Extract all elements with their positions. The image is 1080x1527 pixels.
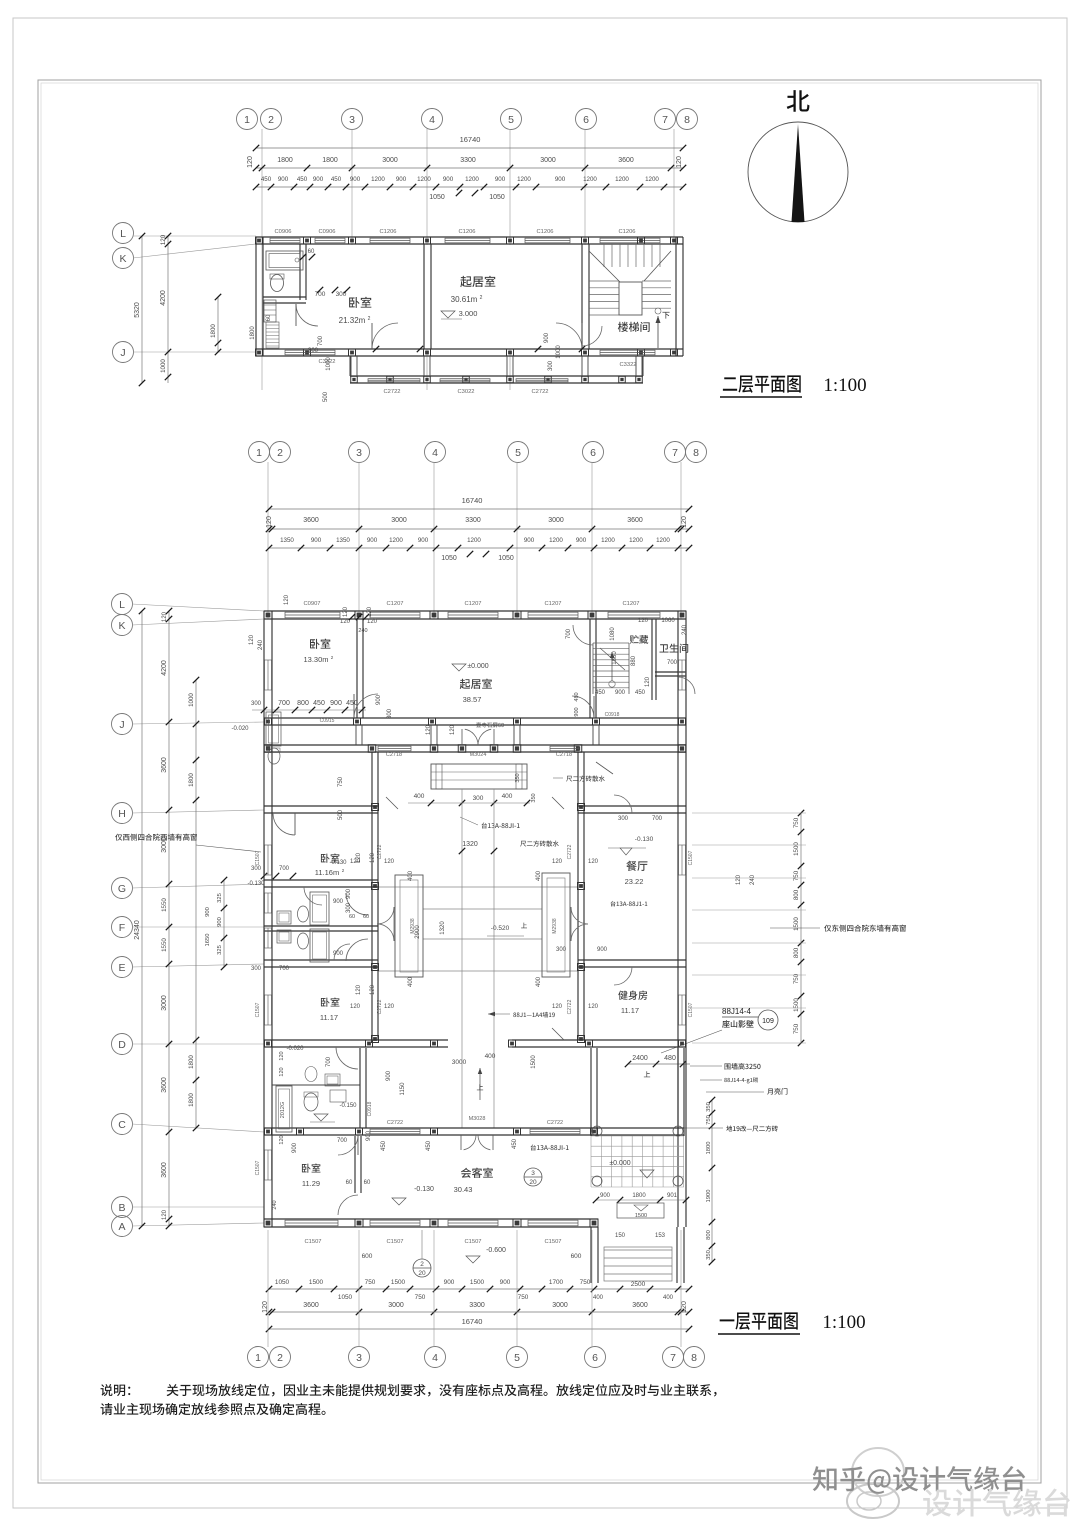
svg-text:1800: 1800 (632, 1193, 646, 1199)
lower plan courtyard north wall (264, 744, 686, 746)
C wall (264, 1127, 598, 1129)
svg-text:3600: 3600 (161, 1077, 168, 1093)
svg-text:8: 8 (691, 1352, 697, 1364)
svg-text:3000: 3000 (382, 157, 398, 164)
svg-text:3000: 3000 (548, 517, 564, 524)
svg-text:880: 880 (631, 655, 637, 666)
svg-text:480: 480 (664, 1055, 676, 1062)
svg-text:400: 400 (593, 1295, 604, 1301)
courtyard corner braces (552, 797, 564, 809)
svg-text:900: 900 (495, 176, 506, 183)
svg-text:300: 300 (556, 947, 567, 953)
svg-text:300: 300 (618, 816, 629, 822)
svg-text:1800: 1800 (250, 326, 256, 340)
stair lower plan (593, 642, 629, 644)
svg-text:2900: 2900 (415, 925, 421, 939)
svg-text:450: 450 (297, 176, 308, 183)
svg-text:3600: 3600 (161, 1162, 168, 1178)
svg-text:L: L (119, 599, 125, 611)
interior wall axis3 upper wing (356, 619, 358, 718)
svg-text:1050: 1050 (429, 194, 445, 201)
entrance steps porch (431, 764, 527, 789)
svg-text:16740: 16740 (460, 135, 481, 144)
upper plan dim row level2 (256, 167, 683, 169)
svg-text:1:100: 1:100 (823, 375, 866, 396)
svg-text:3600: 3600 (618, 157, 634, 164)
svg-text:120: 120 (279, 1067, 285, 1076)
svg-text:3600: 3600 (632, 1302, 648, 1309)
svg-text:1200: 1200 (615, 176, 629, 183)
svg-text:3600: 3600 (303, 1302, 319, 1309)
svg-text:1050: 1050 (338, 1294, 353, 1301)
svg-text:450: 450 (595, 690, 606, 696)
svg-text:900: 900 (346, 888, 352, 899)
svg-text:30.61m: 30.61m (451, 295, 478, 304)
west bay (M2938) (395, 875, 423, 977)
svg-text:1900: 1900 (706, 1190, 712, 1203)
svg-text:700: 700 (279, 966, 290, 972)
svg-text:M3024: M3024 (470, 752, 487, 758)
upper plan stair (619, 282, 642, 315)
svg-text:3000: 3000 (391, 517, 407, 524)
svg-text:1500: 1500 (793, 842, 800, 856)
svg-text:1200: 1200 (656, 537, 670, 544)
svg-text:700: 700 (279, 866, 290, 872)
watermark light text (923, 1488, 1070, 1516)
svg-text:750: 750 (365, 1279, 376, 1286)
svg-text:2: 2 (277, 1352, 283, 1364)
svg-text:60: 60 (349, 914, 355, 920)
svg-text:8: 8 (684, 114, 690, 126)
svg-text:3000: 3000 (540, 157, 556, 164)
svg-text:700: 700 (652, 816, 663, 822)
svg-text:C1507: C1507 (255, 850, 261, 865)
svg-text:1500: 1500 (635, 1213, 647, 1219)
svg-text:900: 900 (350, 176, 361, 183)
svg-text:K: K (119, 253, 126, 265)
svg-text:G: G (118, 883, 126, 895)
D-C bath extra (325, 1074, 340, 1086)
upper plan stair label (618, 322, 650, 332)
svg-text:4200: 4200 (161, 660, 168, 676)
courtyard colonnade west (371, 752, 373, 1040)
svg-text:3600: 3600 (303, 517, 319, 524)
svg-text:900: 900 (366, 1130, 372, 1141)
reception room labels (461, 1168, 493, 1178)
svg-text:120: 120 (343, 606, 349, 617)
svg-text:11.16m: 11.16m (315, 868, 339, 877)
svg-text:M3028: M3028 (469, 1116, 486, 1122)
svg-text:1200: 1200 (583, 176, 597, 183)
lower plan left dims (141, 611, 143, 1226)
svg-text:24340: 24340 (134, 920, 141, 940)
storage label (630, 635, 648, 644)
svg-text:±0.000: ±0.000 (609, 1160, 630, 1167)
east bay (M2938) (542, 873, 570, 977)
svg-text:C1507: C1507 (386, 1239, 403, 1245)
lower plan top dim row level2 (269, 528, 689, 530)
svg-text:1: 1 (244, 114, 250, 126)
svg-text:120: 120 (249, 634, 255, 645)
svg-text:900: 900 (600, 1193, 611, 1199)
svg-text:3300: 3300 (469, 1302, 485, 1309)
svg-text:600: 600 (362, 1253, 373, 1260)
svg-text:-0.130: -0.130 (635, 836, 654, 843)
svg-text:4: 4 (432, 1352, 438, 1364)
upper plan bottom windows (285, 350, 335, 355)
svg-text:1050: 1050 (441, 555, 457, 562)
svg-text:1200: 1200 (601, 537, 615, 544)
svg-text:1320: 1320 (440, 921, 446, 935)
svg-text:5: 5 (508, 114, 514, 126)
svg-text:60: 60 (308, 249, 315, 255)
svg-text:120: 120 (638, 618, 649, 624)
upper plan top wall windows (270, 238, 300, 243)
svg-text:900: 900 (367, 537, 378, 544)
svg-text:3300: 3300 (465, 517, 481, 524)
svg-text:350: 350 (531, 793, 537, 802)
title: second floor plan (723, 375, 801, 392)
J to courtyard-north wall column connectors (355, 725, 357, 745)
svg-text:120: 120 (367, 619, 378, 625)
svg-text:16740: 16740 (462, 496, 483, 505)
svg-text:C0906: C0906 (318, 229, 335, 235)
svg-text:J: J (119, 719, 124, 731)
svg-text:60: 60 (364, 1180, 371, 1186)
D wall (264, 1039, 448, 1041)
svg-text:500: 500 (323, 391, 329, 402)
upper plan axis bubbles top (237, 109, 258, 130)
room labels east wing (626, 861, 647, 871)
svg-text:900: 900 (597, 947, 608, 953)
svg-text:700: 700 (566, 628, 572, 639)
svg-text:-0.130: -0.130 (414, 1186, 434, 1193)
svg-text:D: D (118, 1039, 126, 1051)
svg-text:325: 325 (217, 945, 223, 955)
svg-text:900: 900 (576, 537, 587, 544)
svg-text:450: 450 (346, 700, 358, 707)
svg-text:1650: 1650 (205, 934, 211, 947)
svg-text:3.000: 3.000 (459, 309, 478, 318)
svg-text:3000: 3000 (452, 1059, 467, 1066)
svg-text:4200: 4200 (160, 290, 167, 306)
svg-text:C2718: C2718 (556, 752, 572, 758)
lower plan outer walls (264, 610, 686, 612)
north symbol label 北 (787, 90, 810, 112)
svg-text:300: 300 (473, 795, 484, 802)
svg-text:900: 900 (311, 537, 322, 544)
svg-text:C1207: C1207 (464, 601, 481, 607)
lower plan J wall (264, 717, 686, 719)
svg-text:120: 120 (370, 984, 376, 995)
svg-text:1800: 1800 (210, 324, 217, 338)
svg-text:1: 1 (255, 1352, 261, 1364)
lower plan bottom dims (269, 1288, 689, 1290)
svg-text:450: 450 (331, 176, 342, 183)
svg-text:C1207: C1207 (544, 601, 561, 607)
svg-text:240: 240 (682, 624, 688, 635)
svg-text:1200: 1200 (465, 176, 479, 183)
svg-text:750: 750 (338, 776, 344, 787)
svg-text:1800: 1800 (277, 157, 293, 164)
courtyard splash note top (566, 775, 605, 781)
svg-text:1000: 1000 (160, 359, 167, 373)
svg-text:900: 900 (386, 1070, 392, 1081)
svg-text:C0906: C0906 (274, 229, 291, 235)
svg-text:1200: 1200 (371, 176, 385, 183)
svg-text:C1206: C1206 (536, 229, 553, 235)
svg-text:6: 6 (583, 114, 589, 126)
svg-text:300: 300 (387, 708, 393, 719)
note east high window (824, 925, 906, 932)
svg-text:-0.600: -0.600 (486, 1247, 506, 1254)
svg-text:C1507: C1507 (304, 1239, 321, 1245)
svg-text:1080: 1080 (610, 627, 616, 641)
west wing walls (264, 805, 378, 807)
svg-text:J: J (120, 347, 125, 359)
svg-text:120: 120 (160, 234, 167, 245)
svg-text:300: 300 (308, 348, 319, 354)
svg-text:6: 6 (590, 447, 596, 459)
terrace column connectors (350, 356, 352, 376)
svg-text:C1207: C1207 (622, 601, 639, 607)
svg-text:C1507: C1507 (544, 1239, 561, 1245)
svg-text:120: 120 (552, 859, 563, 865)
upper-left bath fixtures (J-H) (266, 712, 281, 746)
svg-text:300: 300 (251, 966, 262, 972)
svg-text:1350: 1350 (280, 537, 294, 544)
svg-text:C1507: C1507 (688, 850, 694, 865)
svg-text:120: 120 (162, 611, 168, 622)
svg-text:C3322: C3322 (619, 362, 636, 368)
svg-text:150: 150 (615, 1233, 626, 1239)
courtyard center path (461, 789, 463, 1128)
svg-text:60: 60 (266, 314, 272, 321)
svg-text:3: 3 (531, 1170, 535, 1177)
svg-text:3: 3 (349, 114, 355, 126)
svg-text:400: 400 (408, 870, 414, 881)
lower plan top wall windows (285, 612, 340, 618)
svg-text:1800: 1800 (188, 1055, 195, 1069)
svg-text:1060: 1060 (661, 618, 675, 624)
courtyard colonnade east (577, 752, 579, 1040)
svg-text:1700: 1700 (549, 1279, 564, 1286)
svg-text:1200: 1200 (629, 537, 643, 544)
svg-text:2012G: 2012G (280, 1102, 286, 1119)
bottom leader verticals (267, 1230, 269, 1347)
svg-text:5320: 5320 (134, 302, 141, 318)
svg-text:1: 1 (256, 447, 262, 459)
svg-text:1550: 1550 (161, 898, 168, 912)
svg-text:120: 120 (552, 1004, 563, 1010)
lower plan bottom main dims (269, 1311, 689, 1313)
svg-text:450: 450 (426, 1140, 432, 1151)
corridor wall D to C (359, 1048, 361, 1128)
svg-text:2500: 2500 (631, 1281, 646, 1288)
upper plan closet hatch strip (266, 322, 279, 348)
svg-text:120: 120 (681, 516, 688, 528)
svg-text:H: H (118, 808, 126, 820)
svg-text:240: 240 (272, 1200, 278, 1209)
svg-text:240: 240 (258, 639, 264, 650)
svg-text:3000: 3000 (161, 995, 168, 1011)
svg-text:1200: 1200 (389, 537, 403, 544)
svg-text:C2722: C2722 (567, 999, 573, 1014)
svg-text:1800: 1800 (188, 773, 195, 787)
svg-text:2: 2 (480, 295, 483, 301)
svg-text:1050: 1050 (489, 194, 505, 201)
upper plan outer walls (256, 236, 683, 238)
svg-text:C1206: C1206 (618, 229, 635, 235)
svg-text:1550: 1550 (161, 938, 168, 952)
svg-text:1350: 1350 (336, 537, 350, 544)
svg-text:B: B (118, 1202, 125, 1214)
svg-text:C1507: C1507 (255, 1160, 261, 1175)
svg-text:1500: 1500 (793, 998, 800, 1012)
west bathrooms fixtures G-E (264, 925, 378, 927)
upper plan columns (256, 237, 263, 244)
svg-text:120: 120 (736, 874, 742, 885)
svg-text:700: 700 (337, 1138, 348, 1144)
svg-text:300: 300 (346, 902, 352, 913)
svg-text:120: 120 (588, 1004, 599, 1010)
lower plan axis leader verticals top (267, 462, 269, 619)
svg-text:700: 700 (315, 291, 326, 298)
svg-text:E: E (118, 962, 125, 974)
svg-text:6: 6 (592, 1352, 598, 1364)
D-C bath fixtures (276, 1086, 292, 1132)
svg-text:13.30m: 13.30m (303, 655, 328, 664)
svg-text:750: 750 (518, 1294, 529, 1301)
svg-text:3600: 3600 (161, 757, 168, 773)
svg-text:500: 500 (338, 809, 344, 820)
svg-text:7: 7 (670, 1352, 676, 1364)
svg-text:120: 120 (356, 852, 362, 863)
svg-text:C1207: C1207 (386, 601, 403, 607)
svg-text:900: 900 (292, 1142, 298, 1153)
svg-text:3000: 3000 (552, 1302, 568, 1309)
svg-text:450: 450 (635, 690, 646, 696)
svg-text:120: 120 (162, 1209, 168, 1220)
svg-text:C3022: C3022 (457, 389, 474, 395)
svg-text:C0907: C0907 (303, 601, 320, 607)
svg-text:11.29: 11.29 (302, 1179, 320, 1188)
lower plan axis bubbles bottom row (248, 1347, 269, 1368)
svg-text:800: 800 (706, 1230, 712, 1240)
door east at J (572, 696, 594, 718)
svg-text:120: 120 (279, 1135, 285, 1144)
svg-text:120: 120 (350, 1004, 361, 1010)
svg-text:2: 2 (277, 447, 283, 459)
svg-text:350: 350 (706, 1250, 712, 1260)
upper plan left dims (141, 236, 143, 383)
svg-text:7: 7 (672, 447, 678, 459)
svg-text:88J14-4: 88J14-4 (722, 1007, 751, 1016)
svg-text:900: 900 (444, 1279, 455, 1286)
small door top right (573, 625, 593, 645)
svg-text:400: 400 (408, 976, 414, 987)
svg-text:900: 900 (615, 690, 626, 696)
upper plan room label bedroom (349, 297, 371, 308)
svg-text:K: K (118, 620, 125, 632)
svg-text:120: 120 (588, 859, 599, 865)
svg-text:1000: 1000 (188, 693, 195, 707)
svg-text:1500: 1500 (391, 1279, 406, 1286)
svg-text:2: 2 (368, 316, 371, 322)
svg-text:C2722: C2722 (387, 1120, 403, 1126)
door C wall west (338, 1135, 358, 1155)
svg-text:153: 153 (655, 1233, 666, 1239)
svg-text:120: 120 (356, 984, 362, 995)
svg-text:3000: 3000 (388, 1302, 404, 1309)
svg-text:1200: 1200 (467, 537, 481, 544)
svg-text:400: 400 (536, 870, 542, 881)
wc label (659, 644, 688, 653)
svg-text:240: 240 (750, 874, 756, 885)
svg-text:60: 60 (363, 914, 369, 920)
svg-text:450: 450 (381, 1140, 387, 1151)
svg-text:900: 900 (278, 176, 289, 183)
svg-text:300: 300 (251, 866, 262, 872)
bath doors from corridor (346, 893, 368, 915)
svg-text:900: 900 (443, 176, 454, 183)
west wall windows & labels (265, 845, 272, 875)
svg-text:900: 900 (500, 1279, 511, 1286)
door bedroom at J (354, 694, 378, 718)
svg-text:1500: 1500 (309, 1279, 324, 1286)
lower plan top wall columns (264, 611, 272, 619)
svg-text:60: 60 (346, 1180, 353, 1186)
svg-text:38.57: 38.57 (463, 695, 482, 704)
lower plan left axis bubbles (112, 594, 133, 615)
east wall windows & labels (679, 845, 686, 875)
bottom wall windows (285, 1220, 338, 1226)
svg-text:C1507: C1507 (255, 1002, 261, 1017)
upper plan axis leader lines (261, 129, 263, 245)
svg-text:350: 350 (706, 1102, 712, 1112)
svg-text:-0.150: -0.150 (339, 1103, 357, 1109)
svg-text:1880: 1880 (612, 651, 618, 665)
svg-text:400: 400 (663, 1295, 674, 1301)
svg-text:30.43: 30.43 (454, 1185, 473, 1194)
svg-text:700: 700 (326, 1056, 332, 1067)
lower plan axis bubbles top row (249, 442, 270, 463)
svg-text:750: 750 (793, 870, 800, 881)
upper plan interior walls (423, 244, 425, 349)
svg-text:325: 325 (217, 893, 223, 903)
svg-text:C1507: C1507 (464, 1239, 481, 1245)
svg-text:-0.520: -0.520 (491, 925, 510, 932)
living room labels (460, 679, 492, 689)
svg-text:750: 750 (793, 1023, 800, 1034)
svg-text:450: 450 (261, 176, 272, 183)
svg-text:450: 450 (512, 1138, 518, 1149)
svg-text:750: 750 (706, 1115, 712, 1125)
svg-text:C2722: C2722 (383, 389, 400, 395)
svg-text:C0918: C0918 (367, 1101, 373, 1116)
svg-text:2: 2 (268, 114, 274, 126)
svg-text:120: 120 (370, 852, 376, 863)
partition below C wall (354, 1136, 356, 1193)
svg-text:750: 750 (793, 817, 800, 828)
svg-text:900: 900 (396, 176, 407, 183)
svg-text:-0.130: -0.130 (247, 881, 265, 887)
svg-text:C2722: C2722 (567, 844, 573, 859)
lower plan top dim row level3 (269, 547, 689, 549)
svg-text:11.17: 11.17 (320, 1013, 338, 1022)
main door arcs M3024 (465, 729, 478, 745)
svg-text:3600: 3600 (627, 517, 643, 524)
